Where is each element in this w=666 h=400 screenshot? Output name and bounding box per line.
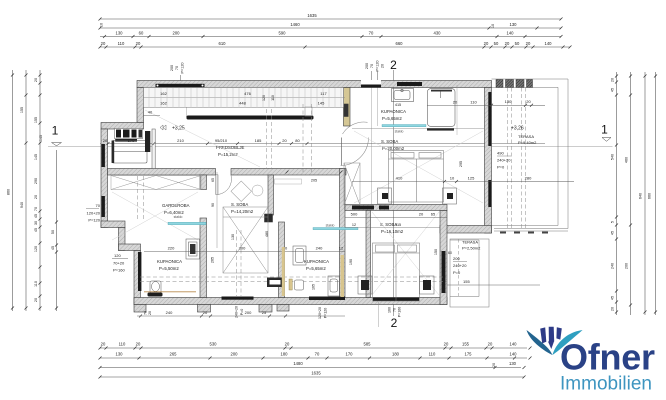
entry door sill [361, 85, 381, 88]
wall soba3 right [440, 211, 447, 305]
svg-text:25: 25 [262, 310, 267, 315]
wall step1 vertical [119, 228, 126, 251]
strip rotated labels [262, 95, 275, 101]
soba3 dim 500 [345, 217, 447, 219]
top rotated small dims near x=372 [365, 60, 385, 71]
svg-text:140: 140 [510, 352, 518, 357]
svg-text:70: 70 [175, 66, 179, 70]
wall C bottom rooms top [345, 205, 447, 211]
svg-text:65: 65 [431, 212, 436, 217]
svg-text:20: 20 [148, 311, 152, 315]
top dim line row4 [100, 46, 570, 48]
svg-text:145: 145 [39, 135, 43, 141]
nightstand soba3 right [420, 276, 435, 294]
top dim line 1635 [100, 18, 561, 20]
wall T tan kupaonica1 left [344, 88, 351, 127]
kupaonica1 divider line [352, 128, 484, 130]
svg-text:110: 110 [118, 41, 125, 46]
svg-text:P=9,40m2: P=9,40m2 [518, 140, 537, 145]
bed soba3 [373, 243, 420, 301]
wall bottom [134, 298, 447, 305]
svg-text:200: 200 [173, 31, 181, 36]
svg-text:660: 660 [396, 41, 404, 46]
wall C dark segs [352, 206, 374, 210]
door leaf dark kup3 [267, 278, 283, 288]
svg-text:130: 130 [231, 234, 235, 240]
svg-text:70: 70 [369, 31, 374, 36]
svg-text:20: 20 [136, 342, 141, 347]
svg-text:205: 205 [311, 179, 317, 183]
svg-text:90: 90 [211, 203, 215, 207]
predsoblje 40 dim [144, 115, 161, 117]
svg-text:220: 220 [168, 246, 175, 251]
svg-text:P=5,65m2: P=5,65m2 [306, 266, 326, 271]
svg-text:20: 20 [611, 78, 615, 82]
svg-text:162: 162 [160, 101, 167, 106]
bed soba2 [223, 207, 268, 273]
wall left upper [137, 88, 144, 123]
roof line dashed h1 [140, 276, 447, 278]
rotated stack below bottom wall center [235, 306, 402, 319]
svg-text:Immobilien: Immobilien [560, 374, 652, 395]
svg-text:1: 1 [601, 123, 608, 137]
svg-text:170: 170 [128, 138, 135, 143]
table soba2 [231, 181, 263, 202]
svg-text:490: 490 [497, 151, 504, 156]
svg-text:180: 180 [392, 352, 400, 357]
svg-text:80: 80 [295, 138, 300, 143]
svg-text:585: 585 [364, 342, 372, 347]
svg-text:KUPAONICA: KUPAONICA [304, 259, 329, 264]
svg-text:2: 2 [390, 58, 397, 72]
svg-text:120+20: 120+20 [87, 211, 101, 216]
svg-text:240: 240 [166, 310, 173, 315]
svg-text:265: 265 [170, 352, 178, 357]
left wall dims stack [87, 203, 101, 223]
svg-text:190: 190 [349, 259, 353, 265]
nightstand soba3 left [358, 276, 372, 294]
wall right [485, 88, 492, 234]
glass kup3 [313, 228, 358, 230]
svg-text:10: 10 [100, 23, 104, 27]
svg-text:S. SOBA: S. SOBA [231, 202, 248, 207]
svg-text:130: 130 [116, 352, 124, 357]
window bar left wall [102, 144, 105, 167]
top rotated small dims near x=170 [170, 62, 185, 73]
washbasin k1 [392, 89, 414, 102]
svg-text:P=5,50m2: P=5,50m2 [159, 266, 179, 271]
svg-text:P=160: P=160 [113, 268, 125, 273]
svg-text:staklo: staklo [326, 224, 335, 228]
logo V swoosh right [552, 330, 582, 355]
svg-text:125: 125 [468, 176, 475, 181]
terrace outline [492, 79, 569, 229]
bottom wall window 1 [222, 297, 254, 300]
svg-text:P=16,10m2: P=16,10m2 [381, 229, 404, 234]
svg-text:120: 120 [114, 253, 121, 258]
left dim line inner [39, 70, 41, 311]
svg-text:20: 20 [488, 342, 493, 347]
svg-text:1635: 1635 [307, 13, 317, 18]
svg-text:20: 20 [103, 138, 108, 143]
dashed pair v2 lower [236, 230, 238, 297]
svg-text:20: 20 [492, 363, 496, 367]
svg-text:20: 20 [203, 310, 208, 315]
entry dark side bar [145, 131, 150, 152]
wall M soba2/kupaonica3 upper [268, 175, 274, 215]
bottom dim line 1480 [100, 367, 521, 369]
strip labels row1 [160, 91, 327, 106]
svg-text:540: 540 [611, 154, 615, 160]
door arc soba2 [216, 175, 232, 195]
svg-text:140: 140 [545, 41, 553, 46]
dim 120 70+20 left [113, 253, 125, 273]
window bar right wall 2 [488, 180, 491, 207]
section marker 1 left [39, 124, 62, 310]
svg-text:+3,26: +3,26 [511, 126, 524, 132]
svg-text:155: 155 [462, 342, 470, 347]
svg-text:290: 290 [34, 178, 38, 184]
svg-text:1460: 1460 [290, 22, 300, 27]
wall left lower [134, 251, 141, 305]
svg-text:1635: 1635 [311, 371, 321, 376]
wc kup3 [295, 280, 304, 290]
svg-text:20: 20 [444, 342, 449, 347]
svg-text:1: 1 [52, 124, 59, 138]
svg-text:1480: 1480 [293, 361, 303, 366]
svg-text:130: 130 [509, 361, 517, 366]
terrace dim line [492, 104, 546, 106]
terrace SE dash ticks [500, 232, 548, 234]
top dim line 1460 [100, 27, 561, 29]
top dim line row3 [100, 36, 561, 38]
top dim labels [101, 13, 552, 46]
svg-text:P=0: P=0 [453, 270, 461, 275]
svg-text:140: 140 [510, 342, 518, 347]
wall G garderoba/soba upper [200, 175, 207, 190]
svg-text:20: 20 [505, 41, 510, 46]
svg-text:180: 180 [281, 352, 289, 357]
washbasin kup3 [328, 276, 340, 296]
svg-text:45: 45 [611, 88, 615, 92]
svg-text:240+20: 240+20 [453, 263, 467, 268]
logo vertex shadow [548, 342, 554, 350]
dashed v entry [137, 176, 139, 220]
svg-text:185: 185 [255, 138, 262, 143]
svg-text:110: 110 [429, 352, 436, 357]
svg-text:200: 200 [625, 263, 629, 269]
svg-text:130: 130 [505, 99, 512, 104]
svg-text:45: 45 [51, 246, 55, 250]
svg-text:50: 50 [494, 41, 499, 46]
svg-text:117: 117 [320, 91, 327, 96]
glass garderoba [168, 222, 206, 224]
wc kup2 [150, 281, 161, 293]
svg-text:45: 45 [611, 296, 615, 300]
pillar bump M [277, 305, 289, 312]
svg-text:165: 165 [312, 284, 316, 290]
top dim ticks [99, 18, 572, 49]
svg-text:120: 120 [34, 246, 38, 252]
svg-text:P=120: P=120 [181, 62, 185, 73]
nightstand left [378, 188, 392, 204]
glass partition k1 [382, 125, 426, 127]
svg-text:70: 70 [96, 203, 101, 208]
svg-text:20: 20 [136, 41, 141, 46]
section marker 2 top [180, 58, 397, 205]
svg-text:430: 430 [434, 31, 442, 36]
svg-text:30: 30 [34, 221, 38, 225]
svg-text:240: 240 [316, 246, 323, 251]
svg-text:20: 20 [484, 41, 489, 46]
svg-text:20: 20 [611, 307, 615, 311]
window bar right wall 1 [488, 92, 491, 146]
shower kup3 [293, 246, 306, 265]
svg-text:TERASA: TERASA [462, 240, 478, 245]
svg-text:130: 130 [116, 31, 124, 36]
svg-text:P=160: P=160 [398, 307, 402, 318]
svg-text:120+20: 120+20 [318, 307, 322, 319]
pillar bump left corner [134, 305, 146, 313]
svg-text:640: 640 [639, 193, 643, 199]
svg-text:70: 70 [34, 207, 38, 211]
bottom dim line row2 [100, 357, 527, 359]
svg-text:45: 45 [611, 231, 615, 235]
svg-text:265: 265 [211, 257, 215, 263]
svg-text:160: 160 [388, 307, 392, 313]
soba3 diagonals [372, 212, 439, 295]
svg-text:P=120: P=120 [324, 308, 328, 319]
tan overlay wall T2 [341, 255, 345, 297]
svg-text:200: 200 [231, 352, 239, 357]
svg-text:500: 500 [351, 212, 358, 217]
svg-text:10: 10 [450, 176, 455, 181]
wardrobe soba1 [344, 163, 360, 205]
svg-text:200: 200 [170, 65, 174, 71]
terrace dim 280 [492, 181, 575, 183]
nightstand right [443, 188, 457, 204]
dim 220 [144, 251, 206, 253]
svg-text:155: 155 [463, 279, 470, 284]
svg-text:300: 300 [239, 246, 246, 251]
svg-text:20: 20 [285, 342, 290, 347]
garderoba wardrobe strip [111, 176, 201, 190]
soba1 diagonals [354, 131, 483, 203]
svg-text:TERASA: TERASA [518, 134, 534, 139]
svg-text:415: 415 [395, 103, 401, 107]
svg-text:12: 12 [339, 246, 344, 251]
wall A entry/garderoba [108, 169, 216, 176]
svg-text:460: 460 [625, 157, 629, 163]
svg-text:590: 590 [279, 31, 287, 36]
svg-text:480: 480 [265, 231, 269, 237]
svg-text:940: 940 [20, 202, 24, 208]
strip mid line [144, 97, 346, 99]
svg-text:20: 20 [34, 298, 38, 302]
svg-text:410: 410 [396, 176, 403, 181]
strip treads [149, 88, 341, 108]
left dim line mid [25, 70, 27, 311]
shower kup2 [186, 239, 200, 259]
bottom dim line 1635 [100, 376, 524, 378]
svg-text:5: 5 [611, 221, 615, 223]
soba2 dims [207, 251, 346, 253]
svg-text:45: 45 [34, 228, 38, 232]
svg-text:20: 20 [381, 64, 385, 68]
k1 dim [427, 104, 492, 106]
pillar bump 1 [198, 305, 211, 313]
svg-text:95/210: 95/210 [215, 138, 228, 143]
svg-text:45: 45 [34, 214, 38, 218]
svg-text:20: 20 [419, 212, 424, 217]
svg-text:20: 20 [34, 195, 38, 199]
svg-text:staklo: staklo [395, 130, 404, 134]
svg-text:12: 12 [352, 223, 356, 227]
strip frame [144, 88, 344, 108]
wc mat kup2 [148, 293, 163, 297]
svg-text:70: 70 [370, 64, 374, 68]
left dim line 860 [12, 70, 14, 311]
svg-text:200: 200 [365, 63, 369, 69]
level mark [160, 125, 166, 130]
svg-text:40: 40 [148, 110, 153, 115]
svg-text:170: 170 [346, 352, 354, 357]
svg-text:2: 2 [391, 316, 398, 330]
wall S soba3 left [366, 211, 371, 298]
svg-text:60: 60 [448, 251, 452, 255]
svg-text:50: 50 [515, 41, 520, 46]
svg-text:KUPAONICA: KUPAONICA [381, 109, 406, 114]
svg-text:145: 145 [318, 101, 325, 106]
bottom wall window 2 [309, 297, 345, 301]
svg-text:20: 20 [453, 99, 458, 104]
tan overlay wall M [282, 247, 285, 296]
svg-text:20: 20 [526, 99, 531, 104]
svg-text:P=5,65m2: P=5,65m2 [382, 116, 402, 121]
svg-text:P=120: P=120 [88, 218, 100, 223]
rail under wall B [275, 179, 302, 184]
section line 1 horizontal [100, 143, 545, 145]
roof line dashed h2 [140, 281, 447, 283]
bed soba1 [389, 151, 444, 203]
dashed pair v1 [266, 109, 268, 168]
svg-text:660: 660 [648, 193, 652, 199]
svg-text:530: 530 [210, 342, 218, 347]
svg-text:610: 610 [219, 41, 227, 46]
svg-text:210: 210 [177, 138, 184, 143]
tan threshold kup2 [144, 291, 196, 293]
svg-text:145: 145 [34, 154, 38, 160]
svg-text:140: 140 [507, 31, 515, 36]
svg-text:70+20: 70+20 [113, 261, 125, 266]
svg-text:110: 110 [271, 95, 275, 101]
window bar top-left [156, 84, 205, 87]
wall left [101, 129, 108, 228]
window bar left lower wall [138, 252, 141, 291]
svg-text:110: 110 [470, 99, 477, 104]
entry cabinet [112, 141, 147, 164]
entry tech block [115, 129, 143, 142]
bottom dim line row1 [100, 347, 527, 349]
svg-text:GARDEROBA: GARDEROBA [162, 203, 190, 208]
door arc predsoblje-east [341, 138, 369, 166]
svg-text:65: 65 [211, 178, 215, 182]
handrail bar [187, 116, 314, 120]
svg-text:70: 70 [144, 311, 148, 315]
svg-text:150: 150 [434, 249, 438, 255]
svg-text:120: 120 [262, 95, 266, 101]
svg-text:Ofner: Ofner [560, 337, 655, 378]
pillar bump 2 [259, 305, 272, 313]
svg-text:476: 476 [244, 91, 251, 96]
svg-text:110: 110 [34, 281, 38, 287]
svg-text:162: 162 [160, 91, 167, 96]
wall G garderoba/soba lower [200, 218, 207, 298]
svg-text:295: 295 [459, 161, 463, 167]
section line 2 vertical [393, 70, 395, 316]
svg-text:240+20: 240+20 [497, 158, 511, 163]
svg-text:155: 155 [34, 117, 38, 123]
window bar top-mid [397, 82, 422, 86]
svg-text:240: 240 [611, 263, 615, 269]
svg-text:70: 70 [393, 308, 397, 312]
wall step2 horizontal [119, 244, 141, 251]
svg-text:448: 448 [239, 101, 246, 106]
svg-text:240+20: 240+20 [235, 306, 239, 318]
garderoba X [112, 192, 198, 240]
wall T2 lower [340, 169, 346, 298]
svg-text:20: 20 [282, 138, 287, 143]
entrance gap white [361, 80, 381, 85]
soba1 dim line [352, 181, 492, 183]
wall top [137, 81, 492, 88]
svg-text:50: 50 [51, 230, 55, 234]
svg-text:280: 280 [525, 176, 532, 181]
logo V swoosh left [527, 330, 553, 355]
svg-text:KUPAONICA: KUPAONICA [157, 259, 182, 264]
svg-text:S. SOBA: S. SOBA [381, 139, 398, 144]
svg-text:staklo: staklo [174, 215, 183, 219]
svg-text:130: 130 [510, 22, 518, 27]
shower k1 [428, 89, 456, 127]
svg-text:70: 70 [315, 352, 320, 357]
svg-text:20: 20 [101, 41, 106, 46]
wall entry top [101, 123, 144, 130]
svg-text:860: 860 [7, 189, 11, 195]
logo bars [540, 327, 562, 344]
terrace dashed verticals [508, 88, 526, 229]
predsoblje diagonal [145, 110, 260, 167]
svg-text:P=0: P=0 [240, 309, 244, 316]
svg-text:P=14,20m2: P=14,20m2 [231, 209, 254, 214]
left dim line step [56, 150, 58, 311]
bath mat k1 [427, 128, 454, 131]
svg-text:20: 20 [34, 78, 38, 82]
closet predsoblje right [303, 104, 312, 172]
svg-text:200: 200 [453, 256, 460, 261]
svg-text:175: 175 [465, 352, 473, 357]
svg-text:10: 10 [491, 24, 495, 28]
svg-text:P=120: P=120 [376, 60, 380, 71]
terrace parapet hatched blocks [496, 80, 533, 88]
tan bar kup3 [289, 279, 292, 290]
svg-text:60: 60 [139, 31, 144, 36]
svg-text:315: 315 [395, 223, 401, 227]
svg-text:20: 20 [101, 342, 106, 347]
svg-text:P=2,50m2: P=2,50m2 [462, 246, 481, 251]
bottom wall window 3 [373, 298, 419, 302]
svg-text:110: 110 [119, 342, 126, 347]
